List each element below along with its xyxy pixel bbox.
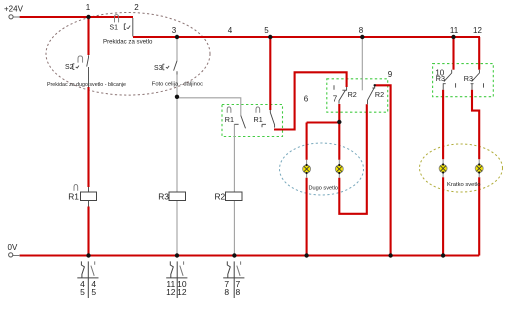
svg-text:R2: R2	[348, 90, 357, 99]
svg-text:R3: R3	[436, 74, 445, 83]
svg-text:0V: 0V	[8, 243, 18, 252]
svg-text:5: 5	[264, 26, 269, 35]
svg-text:S1: S1	[110, 24, 119, 31]
svg-text:R1: R1	[68, 191, 79, 201]
svg-text:7: 7	[333, 95, 338, 104]
svg-text:12: 12	[177, 287, 187, 297]
svg-text:Prekidac za svetlo: Prekidac za svetlo	[103, 39, 153, 46]
svg-text:R1: R1	[225, 115, 234, 124]
svg-text:S3: S3	[154, 65, 163, 72]
svg-text:6: 6	[304, 95, 309, 104]
svg-text:4: 4	[228, 26, 233, 35]
svg-text:R2: R2	[375, 90, 384, 99]
svg-text:S2: S2	[65, 64, 74, 71]
svg-text:8: 8	[224, 287, 229, 297]
svg-text:12: 12	[473, 26, 482, 35]
svg-text:3: 3	[172, 26, 177, 35]
svg-text:1: 1	[86, 3, 91, 12]
svg-text:R3: R3	[158, 192, 169, 202]
svg-text:R3: R3	[464, 74, 473, 83]
svg-text:11: 11	[450, 26, 459, 35]
svg-text:R2: R2	[215, 192, 226, 202]
svg-text:Kratko svetlo: Kratko svetlo	[447, 182, 481, 188]
svg-text:9: 9	[388, 70, 393, 79]
svg-text:8: 8	[236, 287, 241, 297]
svg-text:12: 12	[166, 287, 176, 297]
svg-text:Dugo svetlo: Dugo svetlo	[309, 186, 339, 192]
svg-text:2: 2	[134, 3, 139, 12]
svg-text:5: 5	[91, 287, 96, 297]
svg-text:Foto celija - daljinoc: Foto celija - daljinoc	[152, 82, 203, 88]
svg-text:R1: R1	[254, 115, 263, 124]
svg-text:5: 5	[80, 287, 85, 297]
svg-text:Prekidac za dugo svetlo - blic: Prekidac za dugo svetlo - blicanje	[47, 82, 126, 88]
svg-text:8: 8	[359, 26, 364, 35]
svg-text:+24V: +24V	[4, 5, 24, 14]
